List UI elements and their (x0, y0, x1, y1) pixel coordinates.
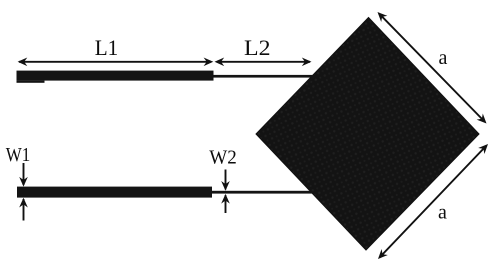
arrowhead a2 upper (478, 141, 491, 154)
dimension arrow a (bottom-right edge) (380, 146, 487, 258)
microstrip feed line 1 (top thick bar) (17, 71, 214, 81)
svg-text:a: a (439, 47, 448, 69)
dimension arrow a (top-right edge) (379, 14, 485, 123)
thin feed segment (bottom) (211, 191, 313, 194)
patch (rotated square) (256, 18, 479, 251)
arrowhead a2 lower (375, 249, 388, 262)
svg-text:a: a (438, 202, 447, 224)
dimension arrow W1 upper (23, 163, 25, 185)
dimension line L2 (217, 61, 310, 63)
thin feed segment L2 (top) (213, 75, 315, 78)
arrowhead a1 lower (477, 114, 490, 127)
dimension line L1 (19, 61, 211, 63)
arrowhead L1 right (204, 58, 214, 67)
svg-text:L2: L2 (244, 35, 271, 60)
arrowhead L2 right (302, 58, 312, 67)
dimension arrow W2 upper (225, 170, 227, 190)
svg-text:W1: W1 (6, 144, 31, 166)
arrowhead W2 down (221, 181, 230, 191)
arrowhead L2 left (215, 58, 225, 67)
svg-text:L1: L1 (95, 35, 119, 60)
arrowhead W2 up (221, 194, 230, 204)
arrowhead L1 left (18, 58, 28, 67)
arrowhead W1 up (19, 198, 28, 208)
dimension arrow W1 lower (23, 199, 25, 221)
arrowhead W1 down (19, 177, 28, 187)
feed step (top bar left lower strip) (17, 81, 45, 83)
dimension arrow W2 lower (225, 195, 227, 213)
svg-text:W2: W2 (209, 146, 237, 168)
microstrip feed line 2 (bottom thick bar) (17, 187, 212, 198)
arrowhead a1 upper (374, 9, 387, 22)
